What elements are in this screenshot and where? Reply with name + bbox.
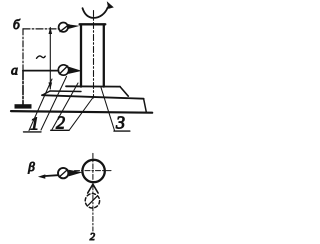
leader to 2	[52, 83, 78, 130]
dimension line l with arrows	[37, 27, 53, 90]
stand base	[15, 104, 32, 108]
fixture right chamfer	[120, 87, 128, 97]
б dash-dot line	[23, 28, 59, 30]
middle block front edge	[42, 95, 144, 99]
leader to 3	[101, 88, 115, 131]
svg-text:2: 2	[90, 232, 96, 243]
number 2	[51, 113, 69, 133]
indicator stand column	[22, 29, 24, 71]
indicator г: dashed circle with slash	[85, 194, 99, 208]
middle block back edge	[50, 90, 81, 93]
indicator в: circle with slash	[58, 168, 83, 178]
measured circle (mandrel section)	[82, 160, 104, 182]
number 1	[24, 114, 42, 134]
indicator б: circle with slash	[59, 23, 80, 32]
rotation arrow arc	[83, 1, 114, 18]
spindle axis (vertical dash-dot)	[93, 11, 95, 99]
в arrow line	[38, 174, 58, 178]
svg-text:β: β	[27, 159, 35, 174]
fixture top surface	[66, 85, 120, 87]
mandrel (column) 3	[80, 24, 106, 86]
leader from indicator	[41, 77, 67, 131]
middle block left chamfer	[42, 91, 50, 95]
leader to 1	[29, 79, 52, 131]
number 3	[114, 113, 130, 133]
svg-text:3: 3	[115, 113, 125, 133]
svg-text:а: а	[11, 64, 18, 79]
a line	[23, 70, 58, 72]
svg-text:1: 1	[30, 114, 39, 134]
leader from 2 to axis	[69, 98, 93, 131]
vertical axis	[92, 153, 94, 231]
base plate 1	[11, 111, 152, 113]
right face	[144, 99, 147, 112]
indicator a: circle with slash	[58, 65, 82, 75]
horizontal axis	[75, 170, 112, 172]
svg-text:2: 2	[56, 113, 65, 133]
indicator г contact cone	[88, 184, 98, 193]
label ~ (l)	[37, 56, 46, 58]
